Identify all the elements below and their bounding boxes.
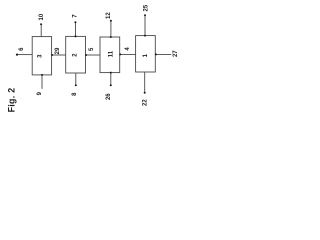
- svg-text:2: 2: [73, 53, 79, 57]
- wire 22 bottom of block 1: [144, 72, 146, 93]
- junction dot wire 7 at block 2: [75, 35, 77, 37]
- junction dot wire 4 at block 11: [119, 53, 121, 55]
- wire 27 output right: [155, 53, 171, 55]
- svg-text:29: 29: [55, 47, 61, 54]
- svg-text:Fig. 2: Fig. 2: [7, 88, 17, 113]
- svg-text:6: 6: [19, 47, 25, 51]
- wire 8 bottom of block 2: [75, 73, 77, 85]
- junction dot wire 26 at block 11: [110, 72, 112, 74]
- block 2: [66, 36, 86, 73]
- terminal dot wire 8: [75, 84, 77, 86]
- terminal dot wire 12: [110, 20, 112, 22]
- wire 7 top of block 2: [75, 22, 77, 36]
- block 1: [136, 36, 156, 72]
- block 11: [100, 37, 120, 73]
- svg-text:7: 7: [72, 14, 78, 18]
- terminal dot wire 7: [74, 21, 76, 23]
- svg-text:11: 11: [108, 50, 114, 57]
- wire 25 top of block 1: [144, 15, 146, 36]
- junction dot wire 5 at block 2: [85, 54, 87, 56]
- junction dot wire 25 at block 1: [144, 35, 146, 37]
- svg-text:27: 27: [173, 50, 179, 57]
- svg-text:5: 5: [89, 47, 95, 51]
- terminal dot wire 25: [144, 14, 146, 16]
- wire 9 bottom of block 3: [41, 75, 43, 89]
- svg-text:9: 9: [37, 91, 43, 95]
- block 3: [32, 37, 51, 75]
- wire 10 top of block 3: [40, 24, 42, 37]
- svg-text:1: 1: [143, 53, 149, 57]
- svg-text:10: 10: [39, 13, 45, 20]
- wire 6 input left: [17, 54, 32, 56]
- svg-text:12: 12: [106, 12, 112, 19]
- wire 26 bottom of block 11: [110, 73, 112, 86]
- wire 29 between blocks 3 and 2: [52, 54, 66, 56]
- wire 12 top of block 11: [110, 21, 112, 38]
- terminal dot wire 6: [16, 54, 18, 56]
- svg-text:4: 4: [125, 47, 131, 51]
- terminal dot wire 26: [110, 84, 112, 86]
- svg-text:22: 22: [143, 99, 149, 106]
- terminal dot wire 22: [144, 92, 146, 94]
- junction dot wire 12 at block 11: [110, 36, 112, 38]
- svg-text:26: 26: [106, 93, 112, 100]
- junction dot wire 9 at block 3: [41, 74, 43, 76]
- junction dot wire 27 at block 1: [155, 53, 157, 55]
- junction dot wire 29 at block 3: [51, 54, 53, 56]
- wire 5 between blocks 2 and 11: [86, 54, 101, 56]
- wire 4 between blocks 11 and 1: [120, 53, 136, 55]
- svg-text:25: 25: [143, 4, 149, 11]
- terminal dot wire 10: [40, 23, 42, 25]
- svg-text:3: 3: [38, 54, 44, 58]
- svg-text:8: 8: [72, 92, 78, 96]
